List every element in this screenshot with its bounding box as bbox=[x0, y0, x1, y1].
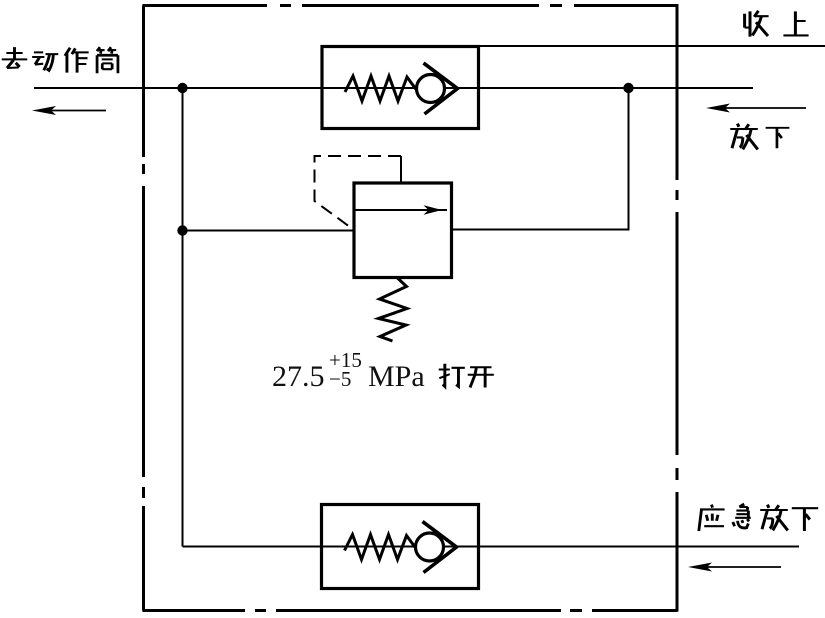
check valve V2 bottom bbox=[322, 505, 479, 589]
arrow to actuator bbox=[32, 106, 106, 115]
label lower "放下" bbox=[730, 124, 789, 150]
wire relief inlet bbox=[183, 230, 355, 232]
wire relief outlet bbox=[452, 88, 629, 230]
enclosure dash-dot border bbox=[143, 4, 678, 612]
label retract "收上" bbox=[745, 11, 809, 37]
wire bottom line bbox=[183, 546, 800, 548]
relief valve RV1 bbox=[354, 156, 452, 278]
check valve V1 top bbox=[322, 47, 479, 129]
value label 27.5 +15/-5 MPa bbox=[272, 348, 425, 393]
wire main line bbox=[34, 87, 753, 89]
node junction right top bbox=[623, 83, 633, 93]
svg-text:27.5: 27.5 bbox=[272, 360, 325, 393]
svg-text:MPa: MPa bbox=[368, 360, 425, 393]
relief valve spring bbox=[379, 278, 408, 342]
label to-actuator "去动作筒" bbox=[2, 47, 118, 73]
arrow emergency flow bbox=[688, 563, 781, 572]
wire left vertical bbox=[182, 88, 184, 547]
label opens "打开" bbox=[439, 364, 494, 388]
pilot dashed line bbox=[315, 156, 402, 230]
arrow lower-down flow bbox=[706, 104, 806, 113]
svg-text:−5: −5 bbox=[329, 367, 351, 391]
wire retract port line bbox=[479, 45, 825, 47]
label emergency-lower "应急放下" bbox=[699, 504, 818, 531]
node junction left mid bbox=[177, 225, 187, 235]
node junction left top bbox=[177, 83, 187, 93]
